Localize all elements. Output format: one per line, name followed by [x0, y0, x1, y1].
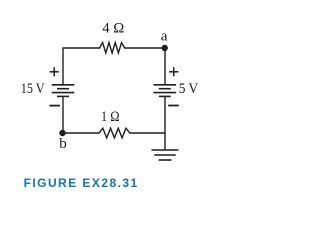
- battery B2 5V plates: [154, 85, 177, 97]
- wire right branch lower: [164, 96, 166, 149]
- node b junction dot: [59, 130, 65, 136]
- caption FIGURE EX28.31: [24, 176, 139, 190]
- svg-text:a: a: [161, 29, 168, 45]
- svg-text:5 V: 5 V: [179, 81, 199, 97]
- svg-text:4 Ω: 4 Ω: [102, 21, 124, 37]
- battery B1 15V plates: [52, 85, 75, 97]
- svg-text:b: b: [59, 136, 66, 152]
- polarity - of B1: [49, 105, 60, 107]
- node a junction dot: [162, 45, 168, 51]
- wire bottom-left segment: [63, 132, 100, 134]
- resistor R1 zigzag: [100, 43, 125, 53]
- wire right branch upper: [164, 48, 166, 85]
- wire top-left corner segment: [63, 48, 100, 85]
- polarity + of B2: [169, 67, 178, 76]
- svg-text:15 V: 15 V: [21, 81, 45, 97]
- ground symbol: [152, 150, 179, 160]
- wire bottom-right segment: [130, 132, 165, 134]
- wire top-right segment: [125, 47, 165, 49]
- polarity - of B2: [168, 105, 179, 107]
- svg-text:1 Ω: 1 Ω: [101, 109, 120, 125]
- resistor R2 zigzag: [99, 128, 130, 138]
- polarity + of B1: [50, 67, 59, 76]
- wire left branch lower: [62, 96, 64, 133]
